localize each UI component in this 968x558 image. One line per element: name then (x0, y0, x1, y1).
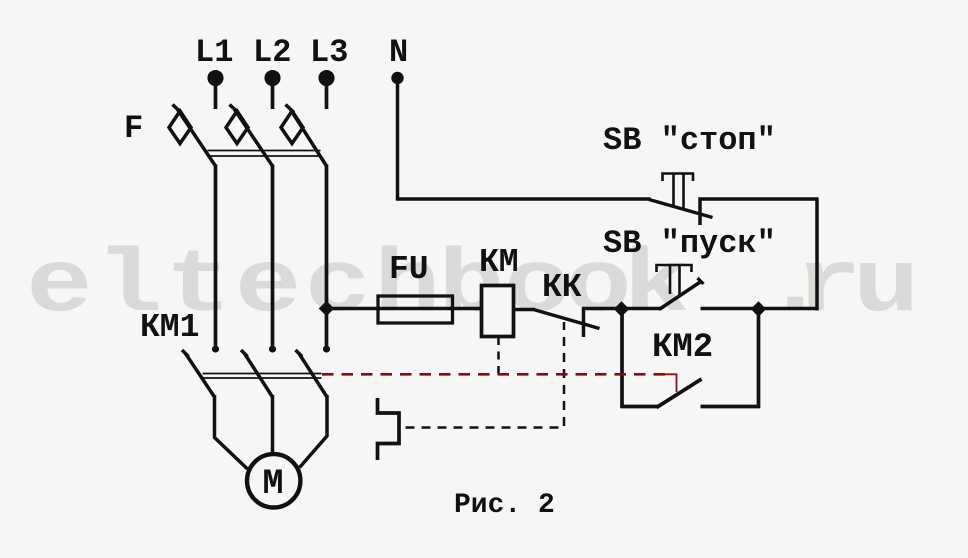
contact KM1 pole 3 blade (296, 350, 328, 397)
SB stop actuator (663, 174, 694, 210)
svg-text:L1: L1 (195, 34, 233, 71)
motor M (247, 454, 300, 507)
wire KM1 pole 2 to motor (271, 395, 275, 453)
wire N vertical (396, 80, 400, 201)
thermal element KK heater (378, 398, 400, 460)
pushbutton SB stop contact blade (649, 200, 713, 218)
contact KM1 pole 2 blade (241, 350, 273, 397)
contact KM1 pole 2 terminal dot (269, 345, 276, 352)
wire KM2 bottom right (701, 405, 761, 409)
wire KK to node A (582, 307, 660, 311)
wire N horizontal to SB stop (396, 197, 651, 201)
svg-text:М: М (263, 464, 284, 504)
wire KM coil to KK (514, 308, 536, 312)
wire KM1 pole 3 to motor (300, 395, 328, 468)
svg-text:КМ: КМ (479, 244, 519, 281)
svg-text:КК: КК (542, 269, 582, 306)
svg-text:SB "пуск": SB "пуск" (603, 225, 776, 262)
fuse FU (378, 296, 453, 323)
wire SB stop to right corner (699, 197, 819, 201)
svg-text:Рис. 2: Рис. 2 (454, 490, 555, 521)
node B (pusk right junction) (751, 301, 767, 317)
breaker mechanical link (208, 151, 321, 157)
thermal contact KK blade (534, 310, 600, 329)
svg-text:.ru: .ru (762, 237, 920, 338)
node A (pusk left junction) (614, 301, 630, 317)
SB pusk actuator (657, 265, 692, 295)
dashed mechanical link KM1 to KM2 (red) (322, 373, 667, 376)
contact KM1 pole 1 terminal dot (212, 345, 219, 352)
svg-text:КМ2: КМ2 (652, 329, 713, 367)
wire L3 vertical (325, 165, 329, 346)
svg-text:КМ1: КМ1 (140, 309, 199, 346)
svg-text:L2: L2 (253, 34, 291, 71)
contact KM1 pole 3 terminal dot (323, 345, 330, 352)
dashed link KM coil (497, 337, 500, 373)
dashed link KK heater to KK contact (406, 322, 565, 428)
svg-text:FU: FU (389, 251, 429, 288)
svg-text:SB "стоп": SB "стоп" (603, 122, 776, 159)
svg-text:F: F (124, 110, 143, 147)
node on L3 to control branch (319, 301, 335, 317)
terminal L2 (266, 72, 278, 109)
contactor coil KM (482, 286, 514, 337)
pushbutton SB pusk contact blade (659, 282, 701, 310)
SB stop fixed terminal (698, 198, 702, 226)
wire L2 vertical (271, 165, 275, 346)
wire L1 vertical (214, 165, 218, 346)
terminal N (391, 72, 403, 84)
wire pusk right to corner (701, 307, 819, 311)
wire KM2 branch right vertical (757, 309, 761, 408)
watermark eltechbook.ru (26, 237, 920, 338)
wire KM2 bottom left (621, 405, 658, 409)
terminal L1 (209, 72, 221, 109)
KK fixed terminal (582, 308, 586, 337)
wire KM2 branch left vertical (620, 309, 624, 408)
breaker F pole 2 (226, 105, 273, 167)
breaker F pole 1 (169, 105, 216, 167)
SB pusk blade tip tick (698, 278, 704, 284)
terminal L3 (320, 72, 332, 109)
contact KM1 pole 1 blade (182, 350, 215, 397)
red link corner into KM2 (665, 374, 677, 392)
wire control row left (junction to KM coil) (327, 307, 482, 311)
breaker F pole 3 (281, 105, 327, 167)
wire right side vertical (815, 199, 819, 311)
svg-text:L3: L3 (310, 34, 348, 71)
wire KM1 pole 1 to motor (215, 395, 248, 469)
svg-text:N: N (389, 34, 408, 71)
KM1 mechanical link (203, 374, 322, 379)
contact KM2 blade (657, 379, 702, 408)
